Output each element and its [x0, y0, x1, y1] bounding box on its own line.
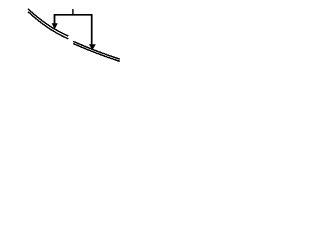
- left arrow stem: [54, 14, 56, 24]
- background: [0, 0, 150, 74]
- inclined surface right segment (double-line plate): [73, 41, 120, 61]
- right arrow stem: [91, 14, 93, 44]
- center tick on rail: [72, 9, 74, 15]
- left arrowhead: [52, 23, 58, 29]
- inclined surface left segment (double-line plate): [28, 9, 68, 39]
- right arrowhead: [89, 44, 96, 50]
- ganging rail (horizontal link bar): [54, 14, 92, 16]
